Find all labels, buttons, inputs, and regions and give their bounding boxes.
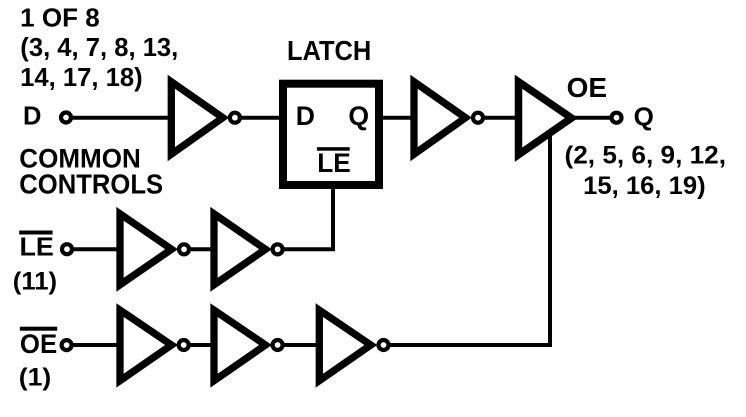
svg-text:(2, 5, 6, 9, 12,: (2, 5, 6, 9, 12,	[565, 142, 727, 170]
latch pin label Q	[348, 101, 369, 131]
inverter U1 (D input buffer)	[171, 82, 240, 154]
pin number (11)	[13, 268, 57, 296]
pin numbers (3, 4, 7, 8, 13,	[20, 34, 178, 62]
svg-text:1 OF 8: 1 OF 8	[20, 4, 100, 32]
input terminal LE	[62, 244, 72, 254]
inverter U3	[414, 82, 483, 154]
node D input label	[23, 103, 41, 131]
inverter U9	[319, 310, 388, 381]
svg-text:CONTROLS: CONTROLS	[19, 169, 163, 200]
output terminal Q	[612, 113, 622, 123]
wire U9 to U4 enable	[389, 132, 550, 345]
svg-text:LE: LE	[20, 234, 54, 262]
pin numbers (2, 5, 6, 9, 12,	[565, 142, 727, 170]
inverter U5	[120, 214, 189, 285]
svg-text:LATCH: LATCH	[287, 35, 371, 66]
svg-text:D: D	[23, 103, 41, 131]
svg-text:D: D	[296, 101, 315, 131]
svg-text:(11): (11)	[13, 268, 57, 296]
svg-text:OE: OE	[20, 329, 57, 359]
svg-text:(3, 4, 7, 8, 13,: (3, 4, 7, 8, 13,	[20, 34, 178, 62]
wire U7 to U8	[189, 343, 215, 347]
pin numbers 14, 17, 18)	[20, 64, 143, 92]
wire OE input to buffer U7	[73, 343, 122, 347]
wire U8 to U9	[283, 343, 320, 347]
wire latch Q to buffer U3	[382, 116, 415, 120]
label OE at U4	[567, 72, 608, 103]
label COMMON	[19, 144, 141, 174]
svg-text:Q: Q	[634, 101, 654, 131]
node Q output label	[634, 101, 654, 131]
wire U5 to U6	[189, 247, 215, 251]
svg-text:Q: Q	[348, 101, 369, 131]
label 1 OF 8	[20, 4, 100, 32]
svg-text:OE: OE	[567, 72, 608, 103]
inverter U8	[214, 310, 283, 381]
label LATCH	[287, 35, 371, 66]
wire U1 to latch D	[240, 116, 284, 120]
pin numbers 15, 16, 19)	[583, 172, 706, 200]
label LE input with overline	[19, 231, 54, 262]
label CONTROLS	[19, 169, 163, 200]
wire U3 to output buffer U4	[483, 116, 520, 120]
input terminal D	[61, 113, 71, 123]
wire LE input to buffer U5	[73, 247, 121, 251]
latch pin label D	[296, 101, 315, 131]
svg-text:LE: LE	[317, 148, 351, 178]
svg-text:14, 17, 18): 14, 17, 18)	[20, 64, 143, 92]
pin number (1)	[19, 364, 52, 392]
svg-text:15, 16, 19): 15, 16, 19)	[583, 172, 706, 200]
wire U6 to latch LE pin	[283, 186, 333, 249]
inverter U7	[120, 310, 189, 381]
latch pin label LE with overline	[317, 147, 351, 178]
inverter U6	[214, 214, 283, 285]
tri-state output buffer U4	[519, 82, 572, 155]
label OE input with overline	[20, 327, 57, 359]
wire D input to buffer U1	[72, 116, 172, 120]
input terminal OE	[62, 340, 72, 350]
wire U4 to output terminal	[575, 116, 611, 120]
latch U2 box	[283, 84, 379, 185]
svg-text:(1): (1)	[19, 364, 52, 392]
